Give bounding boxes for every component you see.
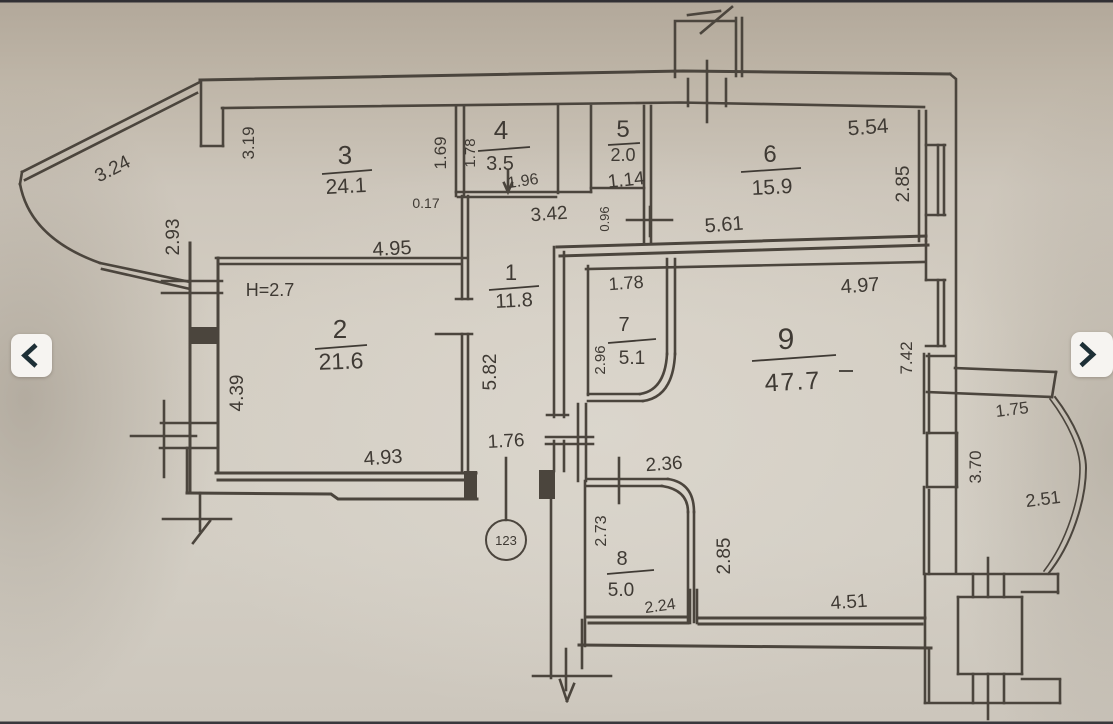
svg-text:4.51: 4.51 [830, 591, 868, 615]
svg-text:1: 1 [505, 260, 517, 285]
svg-text:1.78: 1.78 [462, 138, 479, 167]
svg-text:2.73: 2.73 [593, 515, 610, 546]
svg-text:3.70: 3.70 [966, 450, 985, 483]
svg-text:8: 8 [616, 548, 627, 570]
svg-text:21.6: 21.6 [318, 347, 364, 375]
svg-text:2: 2 [333, 314, 347, 344]
svg-text:4.97: 4.97 [840, 274, 880, 299]
svg-text:0.96: 0.96 [597, 206, 612, 231]
svg-text:3.24: 3.24 [91, 151, 134, 187]
svg-text:1.75: 1.75 [994, 398, 1029, 421]
svg-text:4.95: 4.95 [372, 237, 412, 261]
svg-text:123: 123 [495, 533, 517, 548]
svg-text:H=2.7: H=2.7 [246, 280, 295, 300]
svg-text:2.36: 2.36 [645, 453, 683, 477]
svg-text:2.85: 2.85 [893, 166, 914, 203]
svg-text:24.1: 24.1 [325, 174, 367, 199]
svg-text:1.14: 1.14 [607, 168, 646, 193]
svg-text:15.9: 15.9 [751, 175, 793, 200]
svg-text:5.61: 5.61 [704, 213, 744, 238]
svg-text:2.24: 2.24 [644, 596, 677, 617]
svg-text:2.51: 2.51 [1024, 487, 1061, 511]
svg-text:1.76: 1.76 [487, 430, 525, 453]
svg-text:4.39: 4.39 [227, 375, 248, 412]
svg-text:2.96: 2.96 [592, 345, 609, 374]
svg-text:5: 5 [616, 116, 629, 143]
svg-text:4.93: 4.93 [363, 446, 403, 471]
svg-text:4: 4 [494, 115, 508, 145]
svg-text:0.17: 0.17 [412, 195, 439, 211]
svg-text:6: 6 [763, 141, 776, 168]
svg-text:2.85: 2.85 [714, 538, 735, 575]
svg-text:3: 3 [338, 140, 352, 170]
svg-text:3.19: 3.19 [239, 126, 258, 159]
svg-text:7.42: 7.42 [897, 341, 916, 374]
svg-text:1.96: 1.96 [506, 171, 539, 192]
svg-text:7: 7 [618, 314, 629, 336]
svg-text:5.82: 5.82 [480, 354, 501, 391]
svg-text:9: 9 [778, 323, 795, 356]
svg-text:11.8: 11.8 [495, 289, 534, 313]
svg-text:5.0: 5.0 [608, 580, 634, 601]
svg-text:2.93: 2.93 [163, 219, 184, 256]
svg-text:5.1: 5.1 [619, 348, 645, 369]
svg-text:3.42: 3.42 [530, 203, 568, 227]
svg-text:3.5: 3.5 [486, 153, 514, 175]
svg-text:47.7: 47.7 [764, 367, 822, 398]
svg-text:5.54: 5.54 [847, 115, 890, 141]
svg-text:1.78: 1.78 [608, 272, 644, 294]
svg-text:2.0: 2.0 [610, 145, 635, 165]
svg-text:1.69: 1.69 [431, 136, 450, 169]
